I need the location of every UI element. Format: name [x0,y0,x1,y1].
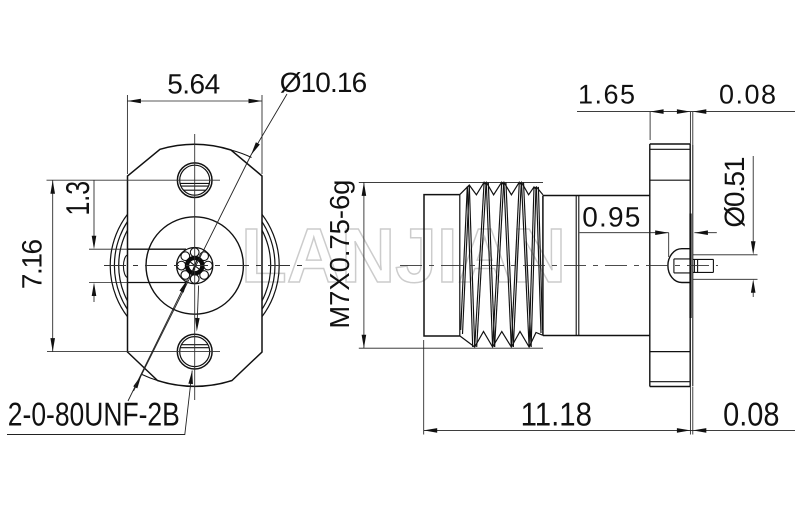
vertical centerline [194,134,196,400]
pin inside dome [674,259,690,273]
insulator dome [668,249,690,283]
svg-text:1.65: 1.65 [578,80,635,110]
dimension 0.95 [580,233,717,257]
bead petals [177,248,212,283]
svg-text:Ø10.16: Ø10.16 [280,67,368,98]
mounting hole bottom [177,334,212,369]
dimension 11.18 / 0.08 bottom [424,340,795,435]
body thread ear arcs [110,181,279,350]
thread crest bottom zigzag [460,332,543,348]
thread flanks [461,182,543,347]
dimension 5.64 [127,95,262,174]
top hole centerline [47,179,221,181]
gasket right face [692,145,694,386]
neck top edge [543,195,650,197]
mounting hole top [177,163,212,198]
svg-text:2-0-80UNF-2B: 2-0-80UNF-2B [8,396,180,433]
tab top edge [128,248,187,250]
flange top chamfer line [650,148,690,150]
dielectric bead outer circle [177,248,213,284]
dimension M7X0.75-6g [359,182,543,348]
svg-text:5.64: 5.64 [167,69,220,100]
flange plate side view [650,144,690,387]
tab bottom edge [128,282,187,284]
svg-text:1.3: 1.3 [59,181,96,216]
svg-text:M7X0.75-6g: M7X0.75-6g [324,180,355,329]
dimension 1.3 [89,180,128,302]
gasket heavy segment [689,214,691,319]
centerlines left view [47,134,304,400]
tab end arc [123,255,127,278]
leader B to bottom hole [7,371,192,435]
flange bottom chamfer line [650,381,690,383]
body circle [146,217,243,314]
right view centerline [400,265,718,267]
contact ring (heavy) [187,258,202,273]
thread crest top zigzag [460,182,543,195]
svg-text:0.95: 0.95 [582,202,640,233]
dimension leader Ø10.16 [134,94,288,391]
dimension 1.65 / 0.08 top [577,112,795,145]
dimension Ø0.51 [693,156,758,297]
leader A to bead [128,280,188,402]
flange hole line bottom [650,351,690,353]
corner arc sliver bottom-left [142,375,158,381]
flange outline (front view) [128,144,263,386]
horizontal centerline [104,265,303,267]
contact pin [693,259,714,272]
corner arc sliver top-right [231,150,252,158]
dimension 7.16 [52,180,54,351]
thread shoulder [542,196,544,336]
contact slot slash [193,260,197,270]
leader arrow above bottom hole [197,286,198,320]
bottom hole centerline [47,351,220,353]
flange hole line top [650,179,690,181]
svg-text:Ø0.51: Ø0.51 [719,157,750,228]
shank/thread boundary [459,195,461,336]
svg-text:0.08: 0.08 [719,80,776,110]
neck groove [575,196,577,336]
neck bottom edge [543,335,650,337]
svg-text:0.08: 0.08 [723,395,779,432]
svg-text:7.16: 7.16 [17,239,48,289]
svg-text:11.18: 11.18 [521,395,592,432]
shank (rear section) [424,195,460,336]
